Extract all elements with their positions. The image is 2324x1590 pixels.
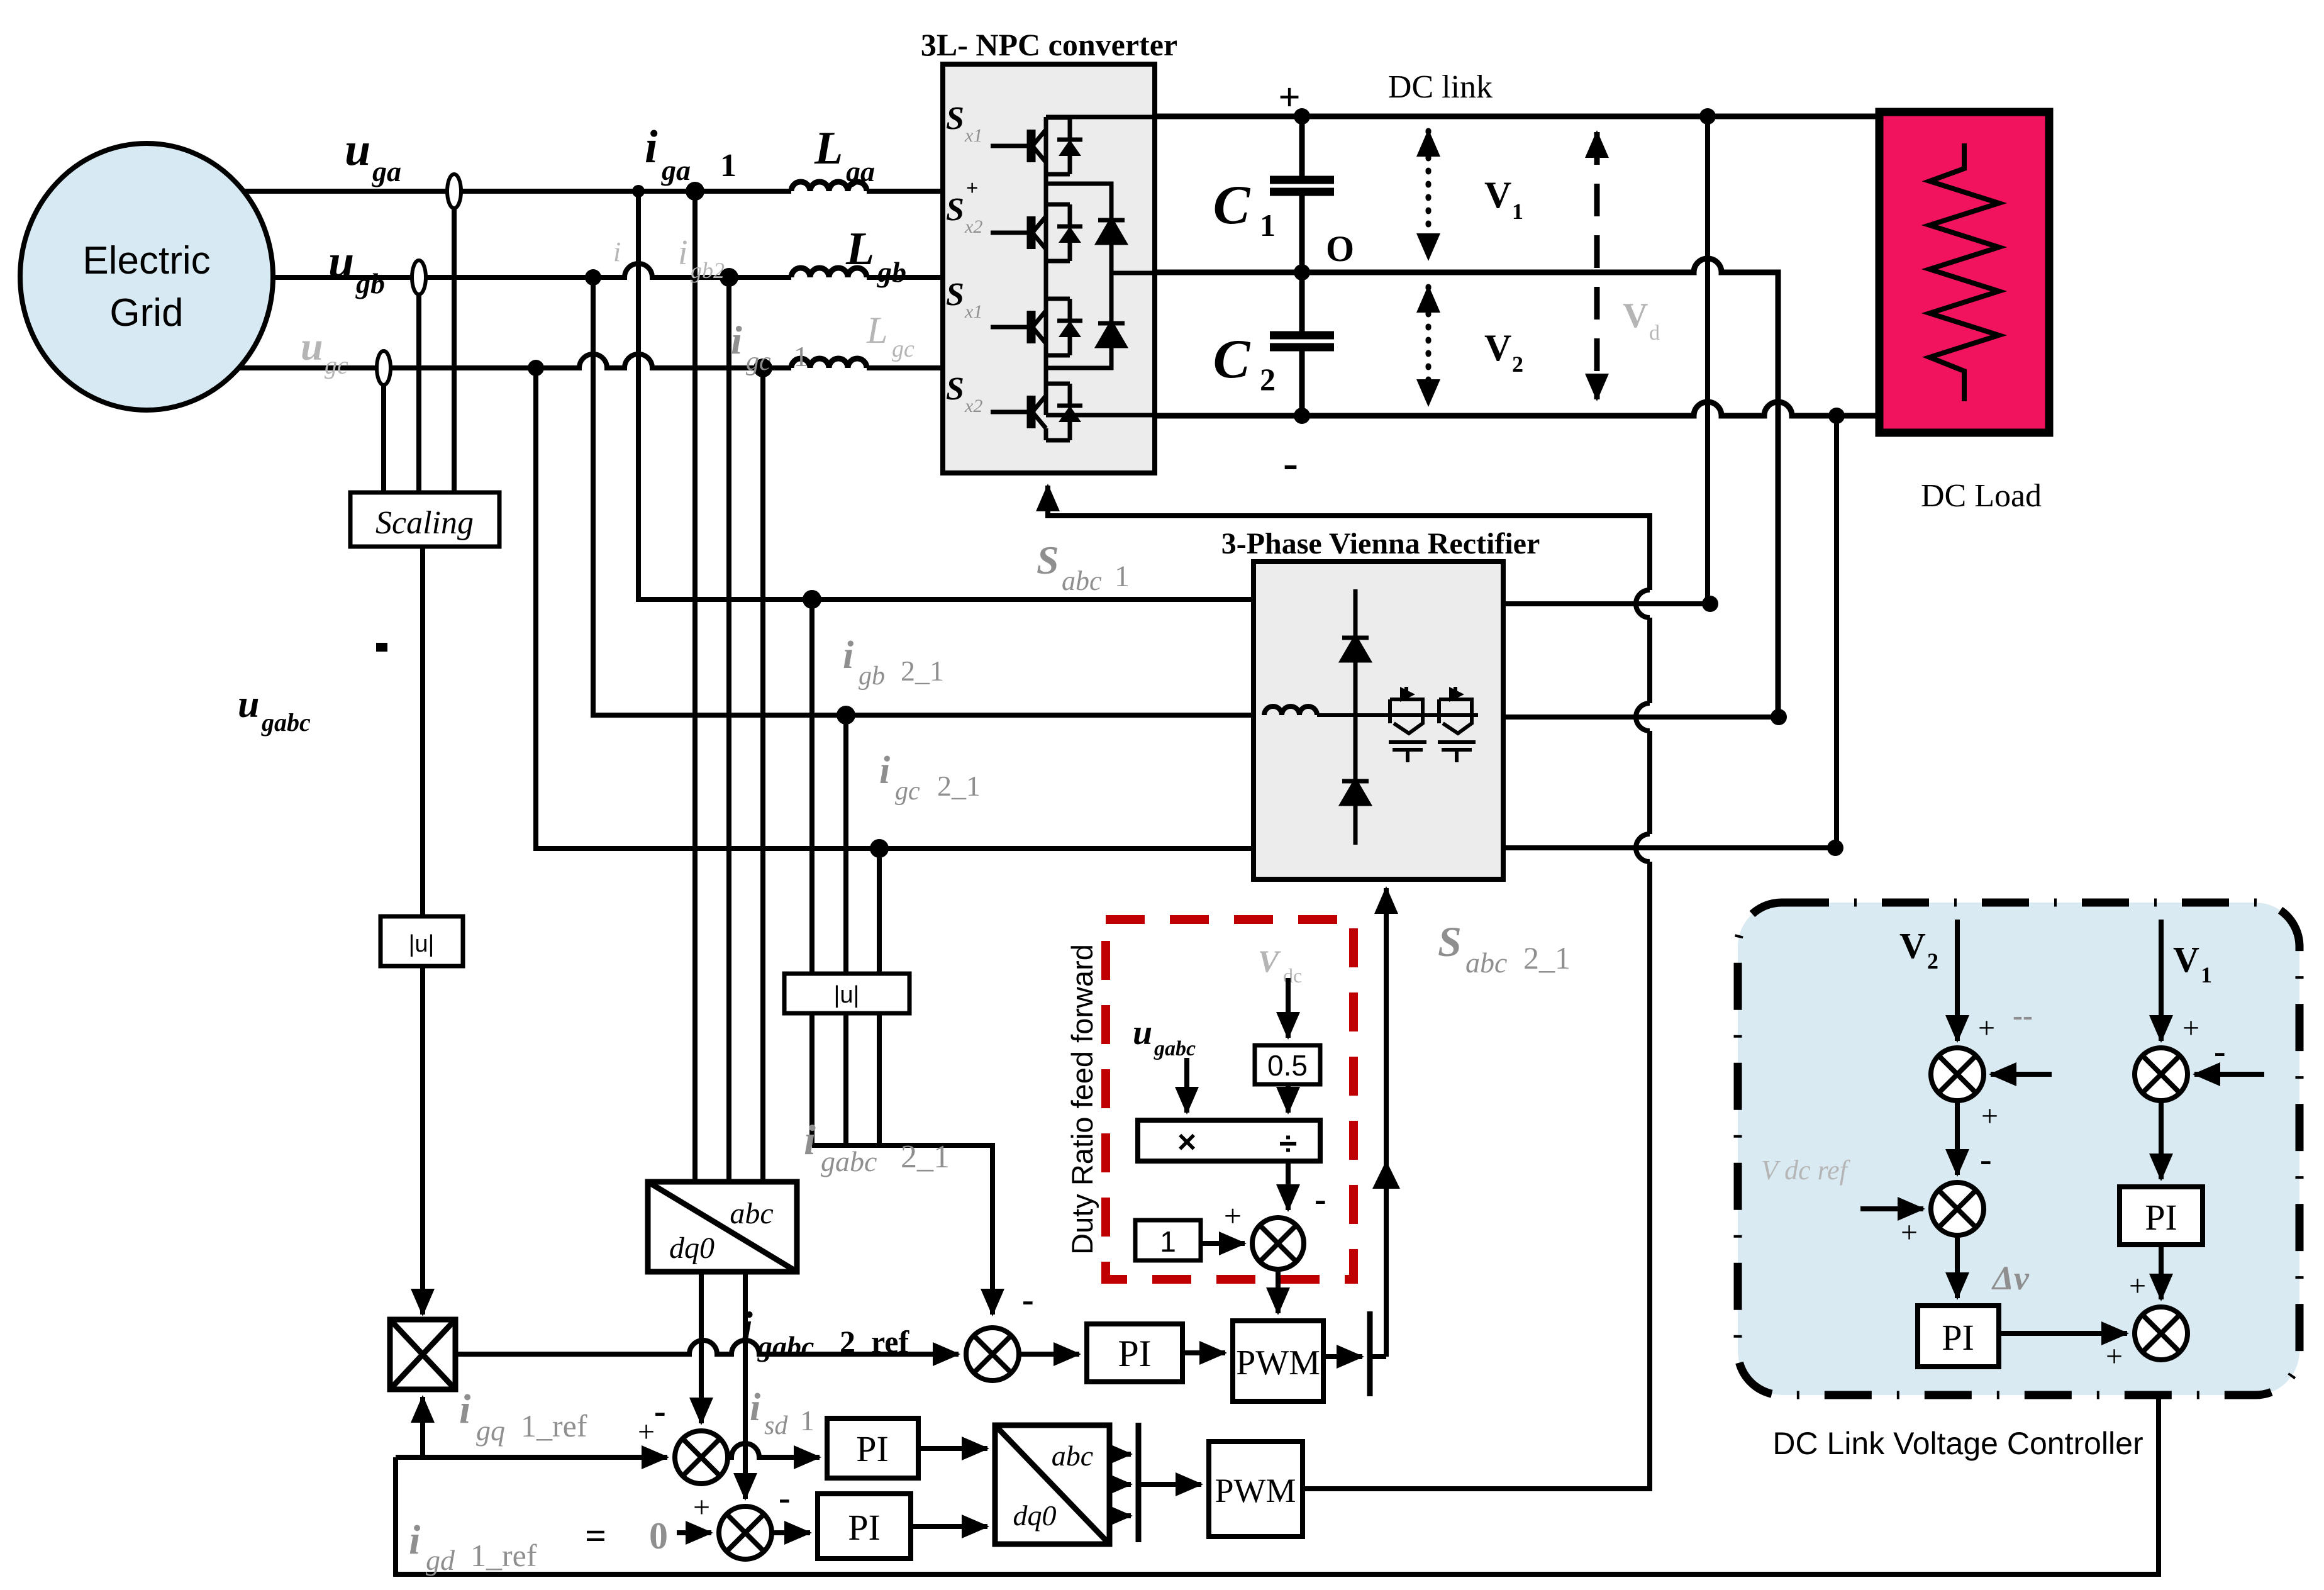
voltage sensor oval phase A [447, 174, 461, 208]
wire tap i_gc2_1 down then right to Vienna input c [536, 368, 1254, 848]
wire voltage tap u_ga down to Scaling [452, 191, 457, 492]
wires block2 three outputs to bar [1109, 1452, 1131, 1457]
svg-text:gd: gd [426, 1544, 455, 1576]
svg-text:-: - [1980, 1140, 1992, 1179]
svg-text:PI: PI [1942, 1317, 1974, 1358]
wire PWM1 to bar [1323, 1354, 1362, 1359]
Scaling box [350, 492, 499, 547]
node i_ga2_1 tap on Vienna line a [803, 590, 821, 609]
svg-text:gb: gb [355, 267, 385, 299]
svg-text:+: + [1978, 1011, 1995, 1045]
svg-text:L: L [866, 309, 887, 351]
svg-text:2: 2 [1260, 362, 1276, 397]
PI box 3 [1918, 1306, 1999, 1367]
svg-text:+: + [1901, 1216, 1918, 1249]
PWM box 2 [1209, 1442, 1303, 1537]
svg-text:|u|: |u| [409, 931, 435, 957]
abs box |u| left [381, 916, 463, 966]
svg-text:gc: gc [746, 347, 771, 376]
svg-text:S: S [1438, 918, 1462, 965]
wire i_gc2_1 measurement down through |u| box [877, 848, 882, 1145]
wire tap i_ga2_1 down then right to Vienna input a [638, 191, 1254, 599]
svg-text:u: u [328, 236, 354, 287]
svg-text:Δv: Δv [1991, 1259, 2030, 1297]
Vienna mid wire [1317, 713, 1478, 717]
svg-text:abc: abc [1062, 565, 1102, 596]
svg-text:Electric: Electric [82, 239, 210, 282]
svg-text:1: 1 [2201, 962, 2212, 987]
svg-text:O: O [1326, 228, 1354, 269]
clamp diode D1 [1098, 220, 1125, 243]
svg-text:i: i [843, 634, 853, 677]
inductor L_gb coil [791, 268, 867, 277]
voltage sensor oval phase C [377, 351, 391, 385]
transistor S2 [991, 204, 1082, 261]
wire from - bus down to Vienna c output [1834, 416, 1839, 848]
svg-text:gc: gc [892, 336, 915, 362]
svg-text:i: i [879, 749, 890, 792]
summing junction duty [1252, 1218, 1304, 1269]
wire PI upper to PWM1 [1182, 1350, 1225, 1355]
svg-text:i: i [750, 1386, 760, 1429]
svg-text:i: i [645, 121, 658, 173]
node O junction [1294, 264, 1310, 281]
arrowhead mid S_abc2_1 [1372, 1160, 1400, 1189]
wire voltage tap u_gc down to Scaling [381, 368, 386, 492]
wire left stub into summing5 [1860, 1206, 1923, 1211]
wire V1 down into summingR1 [2159, 920, 2164, 1041]
node tap a2 [632, 185, 645, 197]
svg-text:PI: PI [848, 1507, 881, 1548]
svg-text:+: + [1224, 1198, 1242, 1233]
wire bar to PWM2 [1138, 1482, 1201, 1487]
svg-text:+: + [1981, 1099, 1998, 1133]
svg-text:1: 1 [720, 148, 737, 184]
wire V2 down into summing4 [1955, 920, 1960, 1041]
wire bundle i_gabc2_1 merge to summing junction [812, 1145, 992, 1315]
duty ratio feed forward red dashed box [1106, 920, 1354, 1279]
svg-text:V: V [1899, 925, 1926, 966]
svg-text:L: L [845, 223, 874, 275]
wire DC top bus from NPC to DC load [1155, 114, 1879, 120]
svg-text:L: L [814, 123, 843, 174]
node bottom bus to Vienna drop [1828, 408, 1845, 424]
node i_gc1 [753, 359, 772, 377]
svg-text:PWM: PWM [1236, 1343, 1320, 1382]
svg-text:1_ref: 1_ref [521, 1408, 587, 1443]
Vienna diode up2 [1342, 781, 1369, 804]
Vienna rectifier block [1254, 562, 1503, 879]
svg-text:gb: gb [859, 662, 885, 691]
svg-text:gb2: gb2 [691, 258, 725, 283]
svg-text:S: S [946, 192, 964, 228]
svg-text:1_ref: 1_ref [470, 1538, 537, 1573]
NPC internal chain wire [1044, 117, 1048, 415]
wire Scaling output down through |u| to multiplier [420, 547, 425, 1315]
Vienna vertical diode leg [1354, 589, 1358, 845]
wire dq0 output isq1 down into summing1 [699, 1272, 704, 1423]
summing junction 5 [1931, 1182, 1984, 1235]
abc/dq0 block 1 [648, 1182, 797, 1272]
svg-text:ga: ga [661, 154, 691, 186]
svg-text:DC link: DC link [1388, 69, 1493, 105]
svg-text:PI: PI [856, 1428, 889, 1469]
wire S_abc1 feedback: PWM out right, up, left, into NPC bottom (hops on vertical) [1048, 486, 1650, 1489]
svg-text:i: i [741, 1303, 753, 1350]
wire PI3 right into summing6 [1999, 1331, 2127, 1336]
Electric Grid circle [20, 143, 273, 410]
svg-text:x2: x2 [964, 216, 982, 237]
svg-text:+: + [1278, 76, 1300, 119]
wire summingR1 down to PI R [2159, 1101, 2164, 1179]
NPC clamp rail [1046, 184, 1111, 368]
wire DC bottom bus from NPC to DC load (hops over x=2715,2827) [1155, 402, 1879, 416]
node cap bottom [1294, 408, 1310, 424]
svg-text:u: u [345, 124, 370, 175]
svg-text:S: S [946, 277, 964, 313]
summing junction 1 (isq1) [675, 1431, 728, 1484]
abs box |u| mid [784, 974, 909, 1013]
svg-text:V: V [1623, 296, 1648, 335]
svg-text:2: 2 [1512, 352, 1523, 377]
wire i_gb2_1 measurement down through |u| box [843, 715, 848, 1145]
wire current tap i_gb1 down to abc-dq0 block [726, 277, 731, 1182]
capacitor C2 plates [1270, 335, 1334, 347]
svg-text:×: × [1177, 1124, 1196, 1160]
V1 dotted measure arrow [1426, 131, 1432, 259]
node cap top [1294, 108, 1310, 125]
svg-text:0: 0 [649, 1515, 668, 1557]
wire Vienna output b to right vertical [1503, 714, 1779, 720]
svg-text:u: u [301, 324, 323, 369]
summing junction 4 (V2) [1931, 1048, 1984, 1101]
svg-text:V: V [1258, 943, 1281, 979]
wire Vdc into 0.5 box [1286, 978, 1291, 1038]
inductor L_gc coil [791, 359, 867, 368]
wire 0.5 into XD box [1286, 1084, 1291, 1113]
node Vienna out c [1827, 840, 1843, 856]
svg-text:gabc: gabc [261, 708, 311, 737]
svg-text:x1: x1 [964, 301, 982, 322]
wire summing4 down to summing5 [1955, 1101, 1960, 1175]
svg-text:3L- NPC converter: 3L- NPC converter [921, 27, 1177, 62]
wire PI B to abc-dq0 block2 [911, 1524, 987, 1529]
abc/dq0 block 2 [995, 1425, 1109, 1544]
wire Vienna output a to right vertical [1503, 601, 1713, 606]
wire PI A to abc-dq0 block2 [918, 1446, 987, 1451]
3L-NPC converter block [943, 64, 1155, 473]
svg-text:1: 1 [1512, 199, 1523, 224]
bar tick after block2 [1136, 1423, 1142, 1542]
wire phase C from grid to NPC (hops over x=943,1015) [157, 354, 943, 368]
svg-text:S: S [1037, 538, 1059, 582]
node i_gb2_1 tap on Vienna line b [837, 706, 855, 725]
multiply divide box [1138, 1120, 1320, 1161]
svg-text:V dc ref: V dc ref [1761, 1155, 1851, 1186]
svg-text:S: S [946, 371, 964, 407]
svg-text:+: + [693, 1491, 710, 1524]
svg-text:V: V [2173, 939, 2199, 980]
summing junction 2 (i_gabc2) [966, 1328, 1019, 1381]
node tap c2 [528, 360, 544, 376]
svg-text:gc: gc [325, 351, 348, 379]
capacitor C1 plates [1270, 180, 1334, 192]
wire capacitor branch vertical [1299, 116, 1305, 416]
svg-text:-: - [2214, 1032, 2226, 1071]
wire divide output into summing3 [1286, 1161, 1291, 1210]
svg-text:2_1: 2_1 [1523, 940, 1571, 976]
wire Vienna output c to right vertical [1503, 845, 1835, 850]
multiplier X box [390, 1320, 455, 1389]
hop arcs on S_abc1 vertical at Vienna lines [1636, 590, 1650, 862]
svg-text:1: 1 [1260, 208, 1276, 243]
svg-text:C: C [1213, 329, 1251, 390]
svg-text:C: C [1213, 175, 1251, 236]
transistor S1 [991, 118, 1082, 174]
voltage sensor oval phase B [412, 260, 426, 294]
svg-text:|u|: |u| [834, 982, 860, 1008]
svg-text:gb: gb [877, 256, 906, 288]
svg-text:PWM: PWM [1215, 1472, 1296, 1509]
Vdc dashed measure arrow [1594, 132, 1600, 399]
svg-text:i: i [678, 233, 688, 272]
svg-text:3-Phase Vienna Rectifier: 3-Phase Vienna Rectifier [1221, 527, 1540, 560]
wire left feedback rectangle: down and bottom long run to controller output [396, 1359, 2159, 1574]
svg-text:i: i [804, 1116, 816, 1164]
summing junction 6 [2135, 1307, 2188, 1360]
svg-text:d: d [1649, 321, 1660, 345]
svg-text:u: u [1133, 1013, 1152, 1052]
svg-text:gq: gq [476, 1415, 505, 1447]
NPC output stubs [1046, 117, 1155, 415]
V2 dotted measure arrow [1426, 287, 1432, 405]
transistor S4 [991, 384, 1082, 440]
wire from + bus down to Vienna a output [1705, 116, 1710, 604]
svg-text:ga: ga [845, 155, 875, 187]
box constant 1 [1135, 1220, 1201, 1260]
svg-text:gabc: gabc [821, 1145, 877, 1177]
node Vienna out a [1702, 596, 1718, 612]
svg-text:2_1: 2_1 [901, 1139, 950, 1175]
wire bar to S_abc2_1 vertical [1370, 1354, 1386, 1359]
svg-text:-: - [1283, 438, 1298, 488]
svg-text:2_1: 2_1 [901, 655, 944, 687]
svg-text:abc: abc [1465, 947, 1507, 979]
svg-text:dq0: dq0 [1013, 1499, 1057, 1532]
wire u_gabc into XD box [1184, 1058, 1189, 1113]
svg-text:DC Load: DC Load [1921, 478, 2042, 514]
wire summing3 to PWM1 [1276, 1269, 1281, 1313]
wire phase B from grid to NPC (hop over x=1015) [157, 264, 943, 277]
svg-text:-: - [779, 1479, 791, 1518]
wire X-box output i_gabc2_ref to summing (hops at 1118,1185) [455, 1340, 959, 1354]
svg-text:+: + [2129, 1269, 2146, 1303]
svg-text:S: S [946, 101, 964, 136]
wire right stub into summing4 [1991, 1072, 2052, 1077]
wire summing lower2 to PI B [772, 1530, 810, 1535]
summing junction R1 (V1) [2135, 1048, 2188, 1101]
Vienna diode up1 [1342, 638, 1369, 660]
wire voltage tap u_gb down to Scaling [416, 277, 421, 492]
svg-text:u: u [238, 683, 259, 726]
svg-text:abc: abc [730, 1197, 773, 1230]
wire right stub into summingR1 [2194, 1072, 2264, 1077]
svg-text:÷: ÷ [1279, 1126, 1298, 1162]
clamp diode D2 [1098, 323, 1125, 346]
svg-text:gabc: gabc [1154, 1037, 1196, 1060]
Vienna switch glyph 2 [1438, 687, 1476, 762]
wire 1 into summing3 [1201, 1241, 1245, 1246]
svg-text:DC Link Voltage Controller: DC Link Voltage Controller [1772, 1426, 2143, 1461]
wire tap i_gb2_1 down then right to Vienna input b [593, 277, 1254, 715]
wire DC mid bus O from NPC (hop over x=2715) then down to Vienna b output [1155, 259, 1778, 717]
PWM box 1 [1233, 1321, 1323, 1401]
PI box upper [1087, 1324, 1182, 1382]
svg-text:=: = [585, 1515, 606, 1557]
wire current tap i_gc1 down to abc-dq0 block [760, 368, 765, 1182]
svg-text:2: 2 [1927, 948, 1938, 974]
svg-text:2_1: 2_1 [937, 770, 981, 802]
wire summing1 output right to PI A (hop at 1185) [728, 1443, 820, 1457]
wire summing5 down to PI3 [1955, 1235, 1960, 1298]
transistor S3 [991, 299, 1082, 355]
svg-text:2_ref: 2_ref [840, 1324, 909, 1359]
Vienna inductor [1264, 706, 1317, 715]
svg-text:i: i [613, 236, 621, 267]
wire i_ga2_1 measurement down through |u| box [809, 599, 815, 1145]
svg-text:PI: PI [1118, 1333, 1151, 1374]
DC load box [1879, 112, 2049, 433]
svg-text:sd: sd [764, 1411, 788, 1440]
svg-text:+: + [966, 177, 978, 200]
wire current tap i_ga1 down to abc-dq0 block [692, 191, 698, 1182]
svg-text:Duty Ratio feed forward: Duty Ratio feed forward [1065, 944, 1099, 1255]
svg-text:+: + [638, 1415, 655, 1448]
svg-text:1: 1 [1115, 560, 1130, 593]
node i_gb1 [720, 268, 738, 287]
Vienna switch glyph 1 [1389, 687, 1426, 762]
svg-text:Scaling: Scaling [375, 505, 474, 541]
svg-text:dq0: dq0 [669, 1231, 714, 1265]
wire branch up into X-box bottom [420, 1397, 425, 1457]
DC link voltage controller box [1738, 903, 2299, 1395]
svg-text:+: + [2182, 1011, 2199, 1045]
DC load resistor zigzag [1930, 143, 1999, 401]
PI box A [827, 1418, 918, 1478]
wire dq0 output isd1 down into summing lower2 [743, 1272, 748, 1499]
svg-text:x2: x2 [964, 396, 982, 416]
PI box B [818, 1494, 911, 1559]
svg-text:V: V [1484, 174, 1511, 216]
svg-text:abc: abc [1052, 1440, 1093, 1472]
svg-text:ga: ga [372, 155, 401, 187]
wire PI R down to summing6 [2159, 1245, 2164, 1299]
svg-text:-: - [1022, 1281, 1034, 1320]
summing junction lower2 (isd1) [719, 1506, 772, 1559]
svg-text:1: 1 [794, 340, 808, 372]
svg-text:gabc: gabc [757, 1330, 814, 1362]
svg-text:gc: gc [895, 777, 920, 806]
inductor L_ga coil [791, 182, 867, 191]
svg-text:+: + [2106, 1340, 2123, 1373]
wire phase A from grid to NPC [157, 189, 943, 194]
node i_gc2_1 tap on Vienna line c [870, 839, 889, 858]
wire i_gq1_ref horizontal into summing1 [396, 1455, 667, 1460]
node top bus to Vienna drop [1699, 108, 1716, 125]
wire summing2 to PI upper [1019, 1352, 1079, 1357]
node Vienna out b [1771, 709, 1787, 725]
bar tick after PWM1 [1367, 1311, 1373, 1396]
Vienna switch link [1423, 713, 1439, 717]
svg-text:--: -- [2013, 999, 2033, 1032]
svg-text:Grid: Grid [109, 291, 183, 335]
svg-text:1: 1 [800, 1404, 815, 1437]
svg-text:i: i [731, 318, 742, 362]
box 0.5 [1255, 1045, 1320, 1084]
node i_ga1 [686, 182, 704, 201]
node tap b2 [585, 269, 601, 286]
svg-text:-: - [1315, 1180, 1326, 1219]
PI box R [2120, 1187, 2203, 1245]
svg-text:1: 1 [1160, 1225, 1176, 1258]
svg-text:0.5: 0.5 [1267, 1049, 1308, 1082]
wire 0 constant into summing lower2 [677, 1530, 711, 1535]
svg-text:PI: PI [2145, 1197, 2177, 1238]
svg-text:x1: x1 [964, 125, 982, 146]
svg-text:i: i [459, 1386, 471, 1432]
wire S_abc2_1 from PWM bar up into Vienna bottom [1384, 888, 1389, 1357]
svg-text:V: V [1484, 327, 1511, 369]
svg-text:-: - [654, 1392, 666, 1431]
svg-text:i: i [409, 1517, 421, 1563]
